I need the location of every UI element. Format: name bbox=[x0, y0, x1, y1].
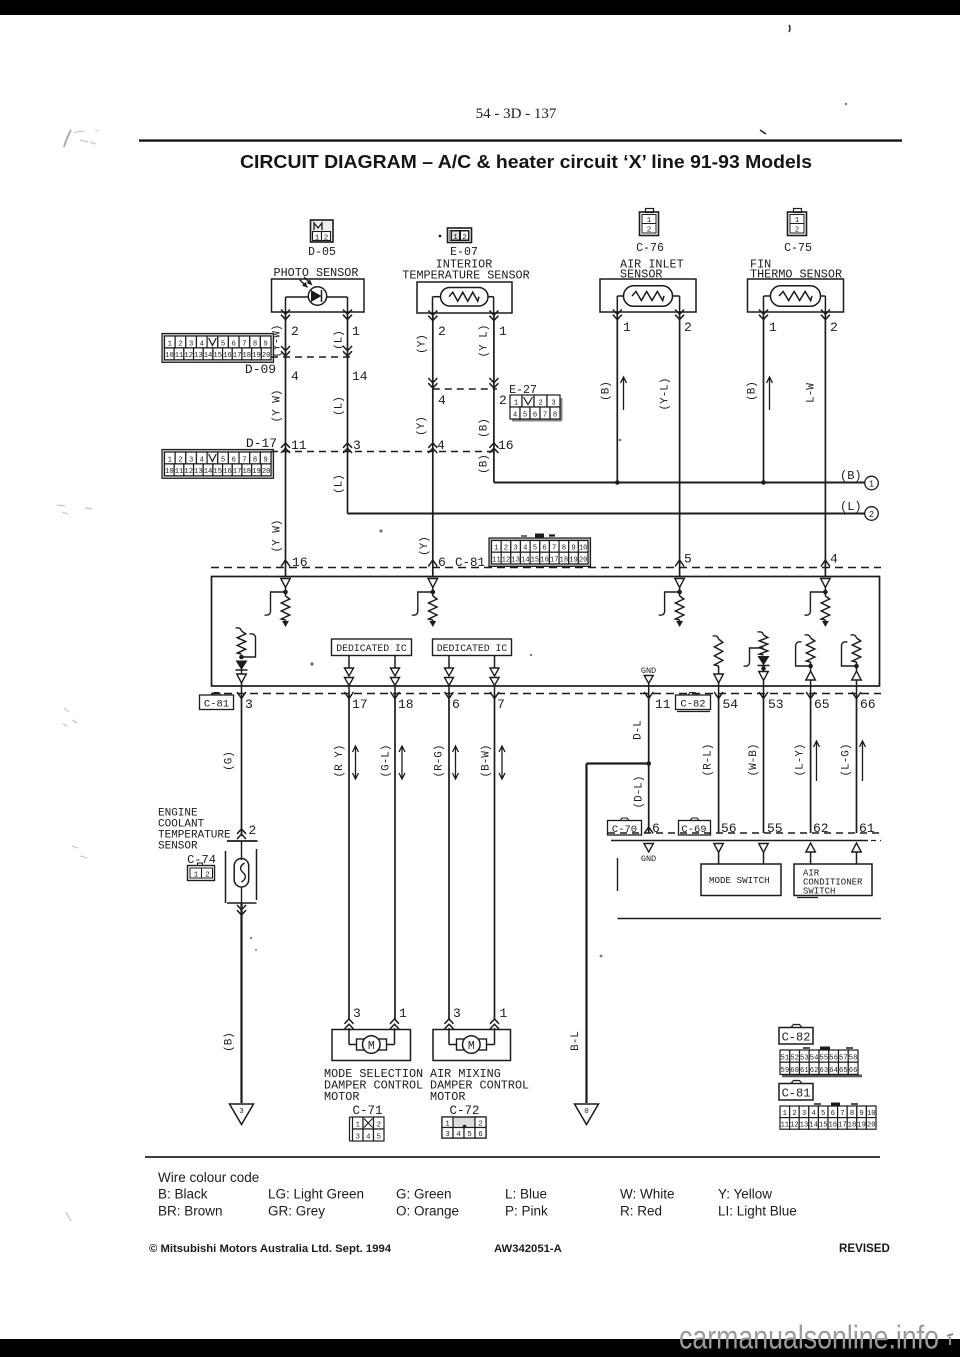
box shadow mark bbox=[797, 897, 818, 899]
IC output wire bbox=[394, 656, 396, 669]
dedicated IC U2 bbox=[433, 639, 512, 656]
svg-text:11: 11 bbox=[175, 468, 184, 476]
svg-text:1: 1 bbox=[500, 1006, 508, 1021]
svg-text:3: 3 bbox=[239, 1108, 244, 1116]
junction pin5 bbox=[677, 590, 682, 595]
connector C-81 top pin grid bbox=[489, 534, 591, 567]
connector arrows at C-76 bbox=[613, 310, 622, 320]
svg-text:4: 4 bbox=[811, 1110, 815, 1118]
svg-text:TEMPERATURE SENSOR: TEMPERATURE SENSOR bbox=[402, 269, 529, 283]
svg-text:6: 6 bbox=[533, 411, 537, 419]
motor M (mode selection) bbox=[349, 1030, 395, 1054]
motor M (air mixing) bbox=[449, 1030, 495, 1054]
svg-text:(Y L): (Y L) bbox=[479, 324, 491, 357]
svg-text:(L): (L) bbox=[840, 500, 862, 514]
svg-text:11: 11 bbox=[175, 352, 184, 360]
resistor R pin5 bbox=[675, 596, 683, 620]
smudge left margin bbox=[64, 130, 99, 147]
svg-text:61: 61 bbox=[859, 821, 875, 836]
svg-text:C-82: C-82 bbox=[782, 1031, 811, 1045]
svg-text:2: 2 bbox=[499, 393, 507, 408]
svg-text:4: 4 bbox=[200, 340, 204, 348]
hook lead pin6 bbox=[412, 592, 433, 615]
svg-text:4: 4 bbox=[456, 1131, 461, 1139]
engine coolant temperature sensor box bbox=[227, 840, 258, 842]
top black scanner bar bbox=[0, 0, 960, 15]
svg-text:20: 20 bbox=[262, 468, 271, 476]
input arrow pin4 bbox=[821, 579, 831, 588]
svg-text:5: 5 bbox=[377, 1133, 381, 1141]
direction arrow double bbox=[453, 746, 459, 779]
svg-text:1: 1 bbox=[356, 1121, 360, 1129]
wire C-75 pin2 (L-W) down bbox=[824, 312, 826, 577]
wire stub pin4 bbox=[824, 588, 826, 597]
direction arrows bbox=[345, 668, 354, 676]
wire bbox=[810, 680, 812, 694]
svg-text:10: 10 bbox=[165, 352, 174, 360]
input arrow pin16 bbox=[281, 579, 291, 588]
svg-text:2: 2 bbox=[462, 234, 467, 242]
direction arrow up bbox=[814, 741, 820, 781]
svg-text:GR: Grey: GR: Grey bbox=[268, 1204, 325, 1219]
svg-text:16: 16 bbox=[223, 352, 232, 360]
svg-text:C-71: C-71 bbox=[352, 1104, 382, 1118]
svg-text:(R-L): (R-L) bbox=[703, 743, 715, 776]
svg-text:7: 7 bbox=[552, 545, 556, 553]
svg-text:8: 8 bbox=[553, 411, 557, 419]
svg-text:Y: Yellow: Y: Yellow bbox=[718, 1187, 772, 1202]
output arrow pin54 bbox=[714, 674, 724, 683]
svg-text:C-81: C-81 bbox=[782, 1087, 811, 1101]
svg-text:1: 1 bbox=[499, 324, 507, 339]
svg-text:SWITCH: SWITCH bbox=[803, 887, 835, 897]
connector icon D-05 bbox=[311, 220, 334, 243]
svg-text:20: 20 bbox=[867, 1122, 876, 1130]
junction C-75 (B) bbox=[761, 480, 766, 485]
svg-text:CIRCUIT DIAGRAM – A/C & heater: CIRCUIT DIAGRAM – A/C & heater circuit ‘… bbox=[240, 152, 812, 172]
interior temperature sensor box bbox=[417, 282, 512, 313]
junction pin4 bbox=[823, 590, 828, 595]
connector icon C-75 bbox=[788, 209, 807, 236]
svg-text:M: M bbox=[368, 1040, 375, 1053]
svg-text:8: 8 bbox=[253, 456, 257, 464]
svg-text:D-17: D-17 bbox=[246, 436, 277, 451]
svg-text:17: 17 bbox=[233, 468, 242, 476]
svg-text:2: 2 bbox=[792, 1110, 796, 1118]
svg-text:1: 1 bbox=[783, 1110, 787, 1118]
wire to connector bbox=[394, 686, 396, 695]
svg-text:1: 1 bbox=[514, 399, 518, 407]
svg-text:1: 1 bbox=[869, 480, 874, 490]
svg-text:4: 4 bbox=[830, 552, 838, 567]
svg-text:15: 15 bbox=[213, 468, 222, 476]
svg-text:15: 15 bbox=[531, 556, 540, 564]
svg-text:(L): (L) bbox=[334, 396, 346, 416]
ground GND (switch assembly) bbox=[644, 844, 654, 853]
svg-text:1: 1 bbox=[623, 320, 631, 335]
svg-text:DEDICATED IC: DEDICATED IC bbox=[437, 643, 508, 654]
D-17 junction dashed line bbox=[271, 451, 494, 453]
resistor R pin6 bbox=[429, 596, 437, 620]
svg-text:6: 6 bbox=[478, 1131, 483, 1139]
wire E-07 pin1 (Y L) down bbox=[493, 313, 495, 483]
svg-text:11: 11 bbox=[492, 556, 501, 564]
switch assembly top edge bbox=[611, 840, 868, 842]
svg-text:14: 14 bbox=[521, 556, 530, 564]
svg-text:6: 6 bbox=[452, 697, 460, 712]
svg-text:(L-Y): (L-Y) bbox=[795, 743, 807, 776]
svg-text:57: 57 bbox=[839, 1055, 848, 1063]
svg-text:5: 5 bbox=[221, 340, 225, 348]
svg-text:2: 2 bbox=[795, 227, 800, 235]
svg-text:(L): (L) bbox=[334, 474, 346, 494]
svg-text:11: 11 bbox=[780, 1122, 789, 1130]
svg-text:51: 51 bbox=[781, 1055, 790, 1063]
terminal node 2 bbox=[865, 507, 879, 521]
svg-text:(B): (B) bbox=[479, 454, 491, 474]
svg-text:MODE SWITCH: MODE SWITCH bbox=[709, 875, 770, 886]
svg-text:6: 6 bbox=[542, 545, 546, 553]
svg-text:17: 17 bbox=[838, 1122, 847, 1130]
thermistor (fin thermo sensor) bbox=[764, 286, 826, 312]
svg-text:3: 3 bbox=[353, 438, 361, 453]
svg-text:MOTOR: MOTOR bbox=[324, 1090, 359, 1104]
svg-text:2: 2 bbox=[684, 320, 692, 335]
svg-text:4: 4 bbox=[437, 438, 445, 453]
supply stub R856.5 bbox=[851, 635, 857, 638]
connector arrows into ECU top bbox=[281, 560, 290, 567]
connector arrows at D-09 bbox=[281, 346, 290, 356]
wire photo sensor pin2 down bbox=[285, 312, 287, 577]
junction pin6 bbox=[431, 590, 436, 595]
svg-text:52: 52 bbox=[790, 1055, 799, 1063]
direction arrows bbox=[445, 668, 454, 676]
stray apostrophe mark bbox=[789, 25, 790, 32]
connector arrows at photo sensor bbox=[281, 310, 290, 320]
svg-text:12: 12 bbox=[790, 1122, 799, 1130]
resistor R bbox=[852, 638, 860, 662]
resistor R pin16 bbox=[281, 596, 289, 620]
svg-text:7: 7 bbox=[242, 340, 246, 348]
svg-text:11: 11 bbox=[655, 697, 671, 712]
svg-text:2: 2 bbox=[291, 324, 299, 339]
svg-text:17: 17 bbox=[352, 697, 368, 712]
svg-text:54: 54 bbox=[723, 697, 739, 712]
wire bbox=[856, 680, 858, 694]
svg-text:16: 16 bbox=[540, 556, 549, 564]
boxed label C-70 bbox=[608, 818, 642, 836]
svg-text:MOTOR: MOTOR bbox=[430, 1090, 465, 1104]
svg-text:(Y W): (Y W) bbox=[272, 389, 284, 422]
svg-text:1: 1 bbox=[399, 1006, 407, 1021]
svg-text:14: 14 bbox=[204, 468, 213, 476]
svg-text:P: Pink: P: Pink bbox=[505, 1204, 548, 1219]
svg-text:18: 18 bbox=[398, 697, 414, 712]
svg-text:17: 17 bbox=[233, 352, 242, 360]
wire C-75 pin1 (B) down bbox=[763, 312, 765, 483]
diode D (pin53) bbox=[758, 656, 770, 666]
svg-text:18: 18 bbox=[242, 468, 251, 476]
svg-text:(B): (B) bbox=[840, 469, 862, 483]
svg-text:1: 1 bbox=[453, 234, 458, 242]
direction arrow into mode switch bbox=[714, 844, 724, 853]
svg-text:C-76: C-76 bbox=[636, 242, 664, 255]
hook lead pin5 bbox=[659, 592, 680, 615]
connector arrow C-70 bbox=[644, 827, 653, 834]
dedicated IC U1 bbox=[332, 639, 412, 656]
svg-text:3: 3 bbox=[513, 545, 517, 553]
svg-text:C-82: C-82 bbox=[680, 699, 705, 711]
junction C-76 (B) bbox=[615, 480, 620, 485]
wire (B) bus horizontal bbox=[494, 482, 865, 484]
svg-text:(B-W): (B-W) bbox=[481, 744, 493, 777]
connector arrows at E-27 bbox=[428, 378, 437, 388]
E-27 junction dashed line bbox=[433, 388, 497, 390]
svg-text:REVISED: REVISED bbox=[839, 1242, 890, 1255]
terminal node 1 bbox=[865, 476, 879, 490]
svg-text:C-69: C-69 bbox=[681, 824, 706, 836]
svg-text:16: 16 bbox=[498, 438, 514, 453]
photo sensor box bbox=[272, 279, 365, 312]
wire C-76 pin2 (Y-L) down bbox=[679, 312, 681, 577]
svg-text:16: 16 bbox=[223, 468, 232, 476]
svg-text:(W-B): (W-B) bbox=[748, 743, 760, 776]
supply stub R53 bbox=[758, 632, 764, 635]
svg-text:(G-L): (G-L) bbox=[381, 744, 393, 777]
svg-text:59: 59 bbox=[781, 1067, 790, 1075]
hook lead (pin53) bbox=[744, 648, 764, 666]
mode switch box bbox=[701, 864, 781, 896]
svg-text:(R-G): (R-G) bbox=[434, 744, 446, 777]
wire C-76 pin1 (B) down bbox=[616, 312, 618, 483]
svg-text:B: Black: B: Black bbox=[158, 1187, 208, 1202]
svg-text:14: 14 bbox=[352, 369, 368, 384]
svg-text:1: 1 bbox=[647, 217, 652, 225]
svg-text:L-W: L-W bbox=[806, 383, 818, 403]
svg-text:9: 9 bbox=[264, 340, 268, 348]
svg-text:15: 15 bbox=[213, 352, 222, 360]
wire C-81 pin18 down bbox=[394, 694, 396, 1019]
boxed label C-81 bbox=[779, 1081, 813, 1101]
wire (B) to ground, down bbox=[240, 903, 242, 1103]
svg-text:2: 2 bbox=[538, 399, 542, 407]
supply stub R810.6 bbox=[805, 635, 811, 638]
offpage arrow (B) ground bbox=[230, 1104, 254, 1125]
hook lead pin4 bbox=[804, 592, 825, 615]
svg-text:9: 9 bbox=[264, 456, 268, 464]
input arrow (up) bbox=[856, 662, 858, 671]
stray specks bbox=[250, 103, 847, 958]
svg-text:O: Orange: O: Orange bbox=[396, 1204, 459, 1219]
svg-text:5: 5 bbox=[523, 411, 527, 419]
svg-text:2: 2 bbox=[830, 320, 838, 335]
svg-text:3: 3 bbox=[245, 697, 253, 712]
svg-text:20: 20 bbox=[262, 352, 271, 360]
svg-text:9: 9 bbox=[859, 1110, 863, 1118]
resistor R (pin54) bbox=[714, 639, 722, 666]
resistor R pin4 bbox=[821, 596, 829, 620]
svg-text:2: 2 bbox=[178, 456, 182, 464]
output arrow pin53 bbox=[759, 672, 769, 681]
svg-text:54 - 3D - 137: 54 - 3D - 137 bbox=[476, 106, 557, 122]
svg-text:17: 17 bbox=[550, 556, 559, 564]
svg-text:4: 4 bbox=[366, 1133, 370, 1141]
svg-text:3: 3 bbox=[551, 399, 555, 407]
svg-text:63: 63 bbox=[820, 1067, 829, 1075]
connector arrows at D-17 bbox=[281, 443, 290, 453]
svg-text:(Y W): (Y W) bbox=[272, 519, 284, 552]
hook lead bbox=[842, 642, 857, 666]
connector C-82 pin grid bbox=[780, 1047, 862, 1078]
svg-text:3: 3 bbox=[353, 1006, 361, 1021]
wire C-82 pin54 (R-L) down bbox=[718, 694, 720, 833]
output arrow to pin 3 bbox=[241, 670, 243, 674]
svg-text:66: 66 bbox=[849, 1067, 858, 1075]
direction arrow up bbox=[767, 377, 773, 410]
svg-text:2: 2 bbox=[377, 1121, 381, 1129]
direction arrows bbox=[391, 668, 400, 676]
wire C-81 pin6 down bbox=[448, 694, 450, 1019]
svg-text:GND: GND bbox=[641, 854, 656, 864]
connector C-72 pin grid bbox=[442, 1117, 486, 1139]
svg-text:2: 2 bbox=[249, 823, 257, 838]
wire pin11 stub bbox=[648, 684, 650, 695]
svg-text:1: 1 bbox=[194, 872, 199, 880]
wire to connector bbox=[448, 686, 450, 695]
boxed label C-82 bbox=[676, 693, 711, 712]
svg-text:6: 6 bbox=[652, 821, 660, 836]
svg-text:(B): (B) bbox=[224, 1032, 236, 1052]
connector E-27 pin grid bbox=[510, 395, 563, 422]
svg-text:5: 5 bbox=[684, 552, 692, 567]
resistor R (ECT pull-up) bbox=[237, 631, 245, 654]
input arrow pin6 bbox=[428, 579, 438, 588]
svg-text:13: 13 bbox=[194, 352, 203, 360]
svg-text:18: 18 bbox=[560, 556, 569, 564]
svg-text:3: 3 bbox=[356, 1133, 360, 1141]
svg-text:62: 62 bbox=[813, 821, 829, 836]
wire to connector bbox=[494, 686, 496, 695]
svg-text:5: 5 bbox=[821, 1110, 825, 1118]
D-09 junction dashed line bbox=[271, 356, 352, 358]
svg-text:11: 11 bbox=[291, 438, 307, 453]
hook lead pin16 bbox=[265, 592, 286, 615]
thermistor (ECT sensor) bbox=[234, 841, 249, 903]
junction (pin53) bbox=[761, 666, 766, 671]
connector arrows at C-75 bbox=[759, 310, 768, 320]
svg-text:D-09: D-09 bbox=[245, 362, 276, 377]
legend rule bbox=[145, 1156, 880, 1158]
svg-text:(L-G): (L-G) bbox=[841, 743, 853, 776]
svg-text:4: 4 bbox=[438, 393, 446, 408]
svg-text:3: 3 bbox=[189, 456, 193, 464]
svg-text:1: 1 bbox=[769, 320, 777, 335]
connector D-09 pin grid bbox=[162, 334, 274, 363]
svg-text:1: 1 bbox=[315, 235, 320, 243]
svg-text:2: 2 bbox=[205, 872, 210, 880]
arrow to internal rail pin5 bbox=[676, 621, 683, 627]
svg-text:12: 12 bbox=[184, 468, 193, 476]
supply stub (ECT pull-up) bbox=[236, 628, 242, 631]
svg-text:(R Y): (R Y) bbox=[334, 744, 346, 777]
svg-text:56: 56 bbox=[829, 1055, 838, 1063]
switch assembly left edge bbox=[617, 858, 619, 891]
direction arrow up bbox=[860, 741, 866, 781]
direction arrow up bbox=[621, 377, 627, 410]
fin thermo sensor box bbox=[748, 279, 844, 312]
svg-text:13: 13 bbox=[800, 1122, 809, 1130]
connector arrows below ECT sensor bbox=[237, 905, 246, 915]
ECU connector dashed line (top) bbox=[211, 567, 881, 569]
svg-text:14: 14 bbox=[204, 352, 213, 360]
svg-text:10: 10 bbox=[165, 468, 174, 476]
wire C-82 pin11 D-L down bbox=[648, 694, 650, 833]
wire photo sensor pin1 down bbox=[347, 312, 349, 514]
svg-text:DEDICATED IC: DEDICATED IC bbox=[336, 643, 407, 654]
connector icon C-76 bbox=[640, 209, 659, 236]
svg-text:53: 53 bbox=[800, 1055, 809, 1063]
svg-text:4: 4 bbox=[523, 545, 527, 553]
supply stub R54 bbox=[713, 636, 719, 639]
svg-text:(Y): (Y) bbox=[419, 536, 431, 556]
ECU connector dashed line (bottom) bbox=[211, 693, 881, 695]
svg-text:3: 3 bbox=[802, 1110, 806, 1118]
svg-text:19: 19 bbox=[857, 1122, 866, 1130]
tick above rule bbox=[760, 130, 766, 134]
wire E-07 pin2 (Y) down bbox=[432, 313, 434, 577]
svg-text:10: 10 bbox=[579, 545, 588, 553]
svg-text:(B): (B) bbox=[479, 418, 491, 438]
svg-text:8: 8 bbox=[253, 340, 257, 348]
svg-text:64: 64 bbox=[829, 1067, 838, 1075]
svg-text:58: 58 bbox=[849, 1055, 858, 1063]
svg-text:10: 10 bbox=[867, 1110, 876, 1118]
wire C-82 pin66 (L-G) down bbox=[856, 694, 858, 833]
svg-text:19: 19 bbox=[569, 556, 578, 564]
svg-text:C-70: C-70 bbox=[612, 824, 637, 836]
svg-text:BR: Brown: BR: Brown bbox=[158, 1204, 223, 1219]
svg-text:7: 7 bbox=[543, 411, 547, 419]
svg-text:R: Red: R: Red bbox=[620, 1204, 662, 1219]
IC output wire bbox=[348, 656, 350, 669]
air conditioner switch box bbox=[794, 864, 872, 896]
air inlet sensor box bbox=[600, 279, 696, 312]
svg-text:12: 12 bbox=[502, 556, 511, 564]
svg-text:W: White: W: White bbox=[620, 1187, 675, 1202]
svg-text:9: 9 bbox=[571, 545, 575, 553]
boxed label C-81 bbox=[200, 693, 234, 711]
svg-text:8: 8 bbox=[850, 1110, 854, 1118]
svg-text:55: 55 bbox=[820, 1055, 829, 1063]
resistor R bbox=[806, 638, 814, 662]
thermistor (air inlet sensor) bbox=[617, 286, 679, 312]
wire C-81 pin7 down bbox=[494, 694, 496, 1019]
input arrow pin5 bbox=[675, 579, 685, 588]
svg-text:14: 14 bbox=[809, 1122, 818, 1130]
svg-text:4: 4 bbox=[291, 369, 299, 384]
svg-text:12: 12 bbox=[184, 352, 193, 360]
svg-text:GND: GND bbox=[641, 666, 656, 676]
svg-text:4: 4 bbox=[513, 411, 517, 419]
svg-text:PHOTO SENSOR: PHOTO SENSOR bbox=[274, 266, 359, 280]
IC output wire bbox=[494, 656, 496, 669]
boxed label C-69 bbox=[679, 818, 711, 836]
svg-text:6: 6 bbox=[831, 1110, 835, 1118]
boxed label C-82 bbox=[779, 1025, 813, 1045]
svg-text:B-L: B-L bbox=[570, 1031, 582, 1051]
svg-text:2: 2 bbox=[647, 227, 652, 235]
svg-text:7: 7 bbox=[840, 1110, 844, 1118]
